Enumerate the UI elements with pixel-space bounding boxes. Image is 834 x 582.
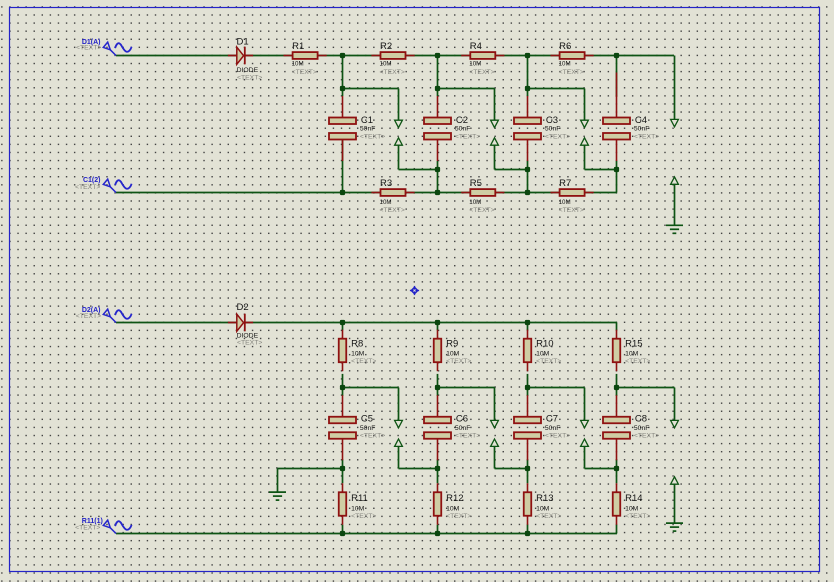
junction mid x=616.5 xyxy=(614,167,619,172)
svg-text:<TEXT>: <TEXT> xyxy=(446,358,471,365)
wire RB2 elbow col4 xyxy=(617,387,675,389)
wire down-arrow stem 1 top ckt xyxy=(398,89,400,121)
wire col2 mid junction to T2 xyxy=(437,170,439,193)
ground bottom-left xyxy=(269,492,286,500)
wire col2 cap to BJ (bot ckt) xyxy=(437,459,439,468)
resistor R14 xyxy=(613,483,621,525)
svg-text:10M: 10M xyxy=(469,199,481,206)
junction T4 x=342.5 xyxy=(340,531,345,536)
junction T4 x=527.5 xyxy=(525,531,530,536)
junction T1 x=437.5 xyxy=(435,53,440,58)
svg-text:10M: 10M xyxy=(380,199,392,206)
wire up-arrow stem 1 bot ckt xyxy=(398,446,400,468)
diode D2 xyxy=(228,314,253,332)
wire down-arrow stem 2 bot ckt xyxy=(494,388,496,421)
svg-text:DIODE: DIODE xyxy=(237,333,259,340)
wire ground elbow bottom left xyxy=(278,468,343,470)
wire col4 BJ to R lead (bot ckt) xyxy=(616,469,618,484)
wire ground stem bottom left xyxy=(277,469,279,493)
arrow down 1 (bottom circuit) xyxy=(395,420,403,427)
wire col3 mid junction to T2 xyxy=(527,170,529,193)
wire RB2 elbow col1 xyxy=(343,387,399,389)
wire down-arrow stem 3 top ckt xyxy=(584,89,586,121)
svg-text:R15: R15 xyxy=(625,338,642,349)
wire col4 R to RB2 (bot ckt) xyxy=(616,374,618,388)
wire bottom rail T4 xyxy=(116,533,617,535)
svg-text:<TEXT>: <TEXT> xyxy=(292,69,317,76)
svg-text:R9: R9 xyxy=(446,338,458,349)
svg-text:R1: R1 xyxy=(292,41,304,52)
junction BJ x=437.5 xyxy=(435,466,440,471)
capacitor C8 xyxy=(603,395,630,460)
wire mid elbow col4 xyxy=(585,169,617,171)
svg-text:<TEXT>: <TEXT> xyxy=(76,313,101,320)
svg-text:10M: 10M xyxy=(292,61,304,68)
wire col1 BJ to R lead (bot ckt) xyxy=(342,469,344,484)
svg-text:50nF: 50nF xyxy=(545,125,561,132)
svg-text:<TEXT>: <TEXT> xyxy=(559,69,584,76)
capacitor C7 xyxy=(514,395,541,460)
junction RB x=527.5 xyxy=(525,86,530,91)
resistor R3 xyxy=(371,189,414,196)
wire col4 R to T4 (bot ckt) xyxy=(616,525,618,534)
wire col2 R to T4 (bot ckt) xyxy=(437,525,439,534)
capacitor C2 xyxy=(424,96,451,161)
svg-text:50nF: 50nF xyxy=(545,425,561,432)
wire up-arrow stem 2 bot ckt xyxy=(494,446,496,468)
wire col1 R to T4 (bot ckt) xyxy=(342,525,344,534)
arrow up 3 (top circuit) xyxy=(581,138,589,145)
origin marker xyxy=(410,286,419,295)
wire col1 RB2 to cap lead (bot ckt) xyxy=(342,388,344,397)
svg-text:10M: 10M xyxy=(559,61,571,68)
svg-text:<TEXT>: <TEXT> xyxy=(360,432,385,439)
svg-text:<TEXT>: <TEXT> xyxy=(625,513,650,520)
junction T1 x=616.5 xyxy=(614,53,619,58)
svg-text:50nF: 50nF xyxy=(634,425,650,432)
svg-text:10M: 10M xyxy=(351,505,365,512)
junction T4 x=437.5 xyxy=(435,531,440,536)
svg-text:R14: R14 xyxy=(625,493,642,504)
svg-text:R8: R8 xyxy=(351,338,363,349)
arrow up over ground (top circuit) xyxy=(671,177,679,184)
svg-text:R5: R5 xyxy=(470,178,482,189)
wire up-arrow stem 3 top ckt xyxy=(584,145,586,169)
wire ground stem bottom right xyxy=(674,484,676,523)
svg-text:R7: R7 xyxy=(559,178,571,189)
ground bottom-right xyxy=(666,523,683,531)
junction T2 x=437.5 xyxy=(435,190,440,195)
svg-text:<TEXT>: <TEXT> xyxy=(237,340,262,347)
svg-text:10M: 10M xyxy=(351,351,365,358)
svg-text:10M: 10M xyxy=(469,61,481,68)
svg-text:D1: D1 xyxy=(237,37,249,48)
capacitor C5 xyxy=(329,395,356,460)
arrow up 2 (top circuit) xyxy=(491,138,499,145)
wire col2 upper drop xyxy=(437,56,439,97)
wire mid elbow col3 xyxy=(495,169,528,171)
svg-text:R12: R12 xyxy=(446,493,463,504)
wire col2 T3 to R lead (bot ckt) xyxy=(437,323,439,331)
wire col4 cap to BJ (bot ckt) xyxy=(616,459,618,468)
junction BJ x=527.5 xyxy=(525,466,530,471)
wire col4 upper drop xyxy=(616,56,618,97)
svg-text:10M: 10M xyxy=(446,351,460,358)
svg-text:<TEXT>: <TEXT> xyxy=(360,133,385,140)
svg-text:10M: 10M xyxy=(380,61,392,68)
wire col3 R to T4 (bot ckt) xyxy=(527,525,529,534)
junction RB x=342.5 xyxy=(340,86,345,91)
wire col3 T3 to R lead (bot ckt) xyxy=(527,323,529,331)
diode D1 xyxy=(228,47,253,65)
junction mid x=437.5 xyxy=(435,167,440,172)
wire down-arrow stem 4 bot ckt xyxy=(674,388,676,421)
junction BJ x=342.5 xyxy=(340,466,345,471)
arrow down 3 (bottom circuit) xyxy=(581,420,589,427)
ground top-right xyxy=(666,225,683,233)
svg-text:10M: 10M xyxy=(625,505,639,512)
arrow down 2 (bottom circuit) xyxy=(491,420,499,427)
svg-text:<TEXT>: <TEXT> xyxy=(351,513,376,520)
svg-text:<TEXT>: <TEXT> xyxy=(237,75,262,82)
wire col3 BJ to R lead (bot ckt) xyxy=(527,469,529,484)
wire col3 upper drop xyxy=(527,56,529,97)
svg-text:<TEXT>: <TEXT> xyxy=(469,207,494,214)
resistor R1 xyxy=(284,52,327,59)
wire col3 cap to mid junction xyxy=(527,161,529,170)
arrow up 3 (bottom circuit) xyxy=(581,439,589,446)
wire col1 upper drop xyxy=(342,56,344,97)
wire col3 cap to BJ (bot ckt) xyxy=(527,459,529,468)
wire col1 cap to BJ (bot ckt) xyxy=(342,459,344,468)
svg-text:10M: 10M xyxy=(536,505,550,512)
svg-text:<TEXT>: <TEXT> xyxy=(76,45,101,52)
arrow up 1 (bottom circuit) xyxy=(395,439,403,446)
terminal D2(A) xyxy=(103,309,131,322)
resistor R13 xyxy=(524,483,532,525)
wire col2 cap to mid junction xyxy=(437,161,439,170)
resistor R12 xyxy=(434,483,442,525)
wire ground stem top right xyxy=(674,184,676,225)
wire down-arrow stem 3 bot ckt xyxy=(584,388,586,421)
wire up-arrow stem 1 top ckt xyxy=(398,145,400,169)
capacitor C6 xyxy=(424,395,451,460)
svg-text:<TEXT>: <TEXT> xyxy=(536,513,561,520)
junction mid x=527.5 xyxy=(525,167,530,172)
wire col1 lower drop (pre-lead overlap) xyxy=(342,140,344,193)
svg-text:<TEXT>: <TEXT> xyxy=(380,69,405,76)
svg-text:R2: R2 xyxy=(380,41,392,52)
svg-text:C8: C8 xyxy=(635,414,647,425)
wire BJ elbow col3 xyxy=(495,468,528,470)
terminal D1(A) xyxy=(103,42,131,55)
junction RB x=437.5 xyxy=(435,86,440,91)
wire RB2 elbow col2 xyxy=(438,387,495,389)
svg-text:<TEXT>: <TEXT> xyxy=(536,358,561,365)
wire col4 cap to mid junction xyxy=(616,161,618,170)
junction RB2 x=616.5 xyxy=(614,385,619,390)
capacitor C1 xyxy=(329,96,356,161)
svg-text:<TEXT>: <TEXT> xyxy=(455,133,480,140)
svg-text:<TEXT>: <TEXT> xyxy=(559,207,584,214)
resistor R6 xyxy=(551,52,594,59)
junction T2 x=342.5 xyxy=(340,190,345,195)
arrow up 2 (bottom circuit) xyxy=(491,439,499,446)
arrow up 1 (top circuit) xyxy=(395,138,403,145)
resistor R7 xyxy=(551,189,594,196)
wire col4 T3 to R lead (bot ckt) xyxy=(616,323,618,331)
resistor R8 xyxy=(339,330,347,372)
terminal C1(2) xyxy=(103,179,131,192)
svg-text:<TEXT>: <TEXT> xyxy=(380,207,405,214)
svg-text:R11: R11 xyxy=(351,493,368,504)
wire BJ elbow col2 xyxy=(399,468,438,470)
wire railB elbow col2 xyxy=(438,88,495,90)
svg-text:50nF: 50nF xyxy=(360,425,376,432)
junction BJ x=616.5 xyxy=(614,466,619,471)
wire col1 R to RB2 (bot ckt) xyxy=(342,374,344,388)
wire mid elbow col2 xyxy=(399,169,438,171)
svg-text:<TEXT>: <TEXT> xyxy=(446,513,471,520)
wire top rail T3 xyxy=(116,322,617,324)
svg-text:10M: 10M xyxy=(446,505,460,512)
junction T3 x=527.5 xyxy=(525,320,530,325)
wire RB2 elbow col3 xyxy=(528,387,585,389)
wire right leg top ckt xyxy=(674,56,676,120)
wire railB elbow col3 xyxy=(528,88,585,90)
svg-text:<TEXT>: <TEXT> xyxy=(75,184,100,191)
resistor R11 xyxy=(339,483,347,525)
svg-text:<TEXT>: <TEXT> xyxy=(351,358,376,365)
wire bottom rail T2 xyxy=(116,192,617,194)
wire railB elbow col1 xyxy=(343,88,399,90)
svg-text:DIODE: DIODE xyxy=(237,67,259,74)
svg-text:C7: C7 xyxy=(546,414,558,425)
svg-text:<TEXT>: <TEXT> xyxy=(545,133,570,140)
arrow down right (top circuit) xyxy=(671,119,679,126)
terminal R11(1) xyxy=(103,520,131,533)
arrow down 2 (top circuit) xyxy=(491,120,499,127)
resistor R15 xyxy=(613,330,621,372)
junction T3 x=342.5 xyxy=(340,320,345,325)
svg-text:50nF: 50nF xyxy=(360,125,376,132)
wire col3 RB2 to cap lead (bot ckt) xyxy=(527,388,529,397)
wire col4 mid junction to T2 xyxy=(616,170,618,193)
svg-text:50nF: 50nF xyxy=(455,125,471,132)
resistor R2 xyxy=(371,52,414,59)
capacitor C3 xyxy=(514,96,541,161)
svg-text:C6: C6 xyxy=(456,414,468,425)
svg-text:50nF: 50nF xyxy=(634,125,650,132)
svg-text:R6: R6 xyxy=(559,41,571,52)
junction T2 x=527.5 xyxy=(525,190,530,195)
svg-text:D2: D2 xyxy=(237,302,249,313)
junction RB2 x=437.5 xyxy=(435,385,440,390)
wire col1 T3 to R lead (bot ckt) xyxy=(342,323,344,331)
arrow down 1 (top circuit) xyxy=(395,120,403,127)
svg-text:<TEXT>: <TEXT> xyxy=(634,432,659,439)
wire col2 BJ to R lead (bot ckt) xyxy=(437,469,439,484)
junction T1 x=527.5 xyxy=(525,53,530,58)
svg-text:<TEXT>: <TEXT> xyxy=(625,358,650,365)
svg-text:<TEXT>: <TEXT> xyxy=(469,69,494,76)
svg-text:10M: 10M xyxy=(625,351,639,358)
wire top rail T1 xyxy=(116,55,674,57)
svg-text:R10: R10 xyxy=(536,338,553,349)
wire up-arrow stem 2 top ckt xyxy=(494,145,496,169)
wire col2 RB2 to cap lead (bot ckt) xyxy=(437,388,439,397)
resistor R10 xyxy=(524,330,532,372)
svg-text:10M: 10M xyxy=(559,199,571,206)
junction RB2 x=342.5 xyxy=(340,385,345,390)
svg-text:<TEXT>: <TEXT> xyxy=(545,432,570,439)
svg-text:R3: R3 xyxy=(380,178,392,189)
wire BJ elbow col4 xyxy=(585,468,617,470)
svg-text:10M: 10M xyxy=(536,351,550,358)
svg-text:<TEXT>: <TEXT> xyxy=(634,133,659,140)
wire col2 R to RB2 (bot ckt) xyxy=(437,374,439,388)
arrow down 4 (bottom circuit) xyxy=(671,420,679,427)
wire col3 R to RB2 (bot ckt) xyxy=(527,374,529,388)
svg-text:<TEXT>: <TEXT> xyxy=(455,432,480,439)
resistor R9 xyxy=(434,330,442,372)
wire col4 RB2 to cap lead (bot ckt) xyxy=(616,388,618,397)
junction T1 x=342.5 xyxy=(340,53,345,58)
wire up-arrow stem 3 bot ckt xyxy=(584,446,586,468)
svg-text:<TEXT>: <TEXT> xyxy=(75,525,100,532)
junction T3 x=437.5 xyxy=(435,320,440,325)
resistor R5 xyxy=(461,189,504,196)
capacitor C4 xyxy=(603,96,630,161)
wire C4 long red pin xyxy=(616,73,618,98)
wire down-arrow stem 1 bot ckt xyxy=(398,388,400,421)
svg-text:R13: R13 xyxy=(536,493,553,504)
arrow down 3 (top circuit) xyxy=(581,120,589,127)
svg-text:C5: C5 xyxy=(361,414,373,425)
svg-text:50nF: 50nF xyxy=(455,425,471,432)
wire down-arrow stem 2 top ckt xyxy=(494,89,496,121)
svg-text:R4: R4 xyxy=(470,41,482,52)
resistor R4 xyxy=(461,52,504,59)
arrow up over ground (bottom circuit) xyxy=(671,477,679,484)
junction RB2 x=527.5 xyxy=(525,385,530,390)
